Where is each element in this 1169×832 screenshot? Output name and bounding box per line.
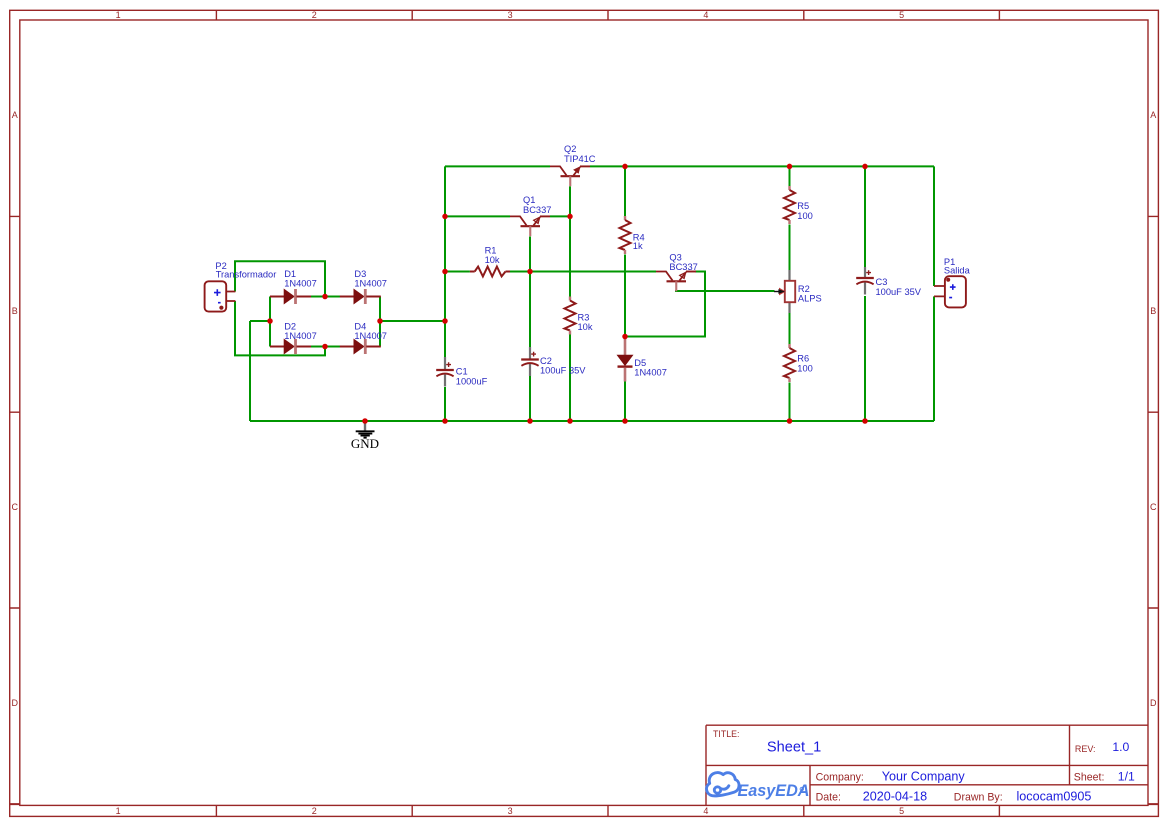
svg-text:lococam0905: lococam0905 (1017, 789, 1092, 803)
wire x=530 Q1 base down to C2 (529, 237, 531, 348)
svg-text:5: 5 (899, 10, 904, 20)
junction (567, 214, 573, 220)
svg-text:1N4007: 1N4007 (354, 331, 387, 341)
diode D3 1N4007 (340, 289, 381, 304)
title block frame (706, 725, 1148, 805)
connector P2 (Transformador) (205, 281, 236, 311)
wire Q1 base rail left segment (445, 215, 510, 217)
capacitor C1 1000uF (436, 357, 454, 387)
junction (442, 318, 448, 324)
wire P2 pin2 to bridge AC node 2 (235, 301, 325, 355)
wire bridge right column (379, 297, 381, 347)
wire R6 to ground rail (789, 383, 791, 422)
svg-text:3: 3 (508, 10, 513, 20)
svg-text:TITLE:: TITLE: (713, 729, 739, 739)
svg-text:REV:: REV: (1075, 744, 1096, 754)
wire bridge left column (269, 297, 271, 347)
wire D2 cathode to node (311, 346, 325, 348)
svg-text:100: 100 (797, 211, 813, 221)
connector P1 (Salida) (934, 276, 966, 307)
resistor R6 100 (784, 344, 795, 382)
svg-text:Date:: Date: (816, 791, 841, 803)
junction (622, 164, 628, 170)
svg-text:2: 2 (312, 10, 317, 20)
svg-text:1N4007: 1N4007 (354, 278, 387, 288)
junction (362, 418, 368, 424)
svg-text:R2: R2 (798, 284, 810, 294)
svg-text:Sheet:: Sheet: (1074, 772, 1105, 784)
svg-text:Salida: Salida (944, 266, 971, 276)
svg-text:1000uF: 1000uF (456, 377, 488, 387)
wire x=530 C2 to ground rail (529, 376, 531, 422)
svg-text:A: A (12, 110, 18, 120)
junction (527, 269, 533, 275)
wire right rail lower (P1 pin 2 to bottom rail) (933, 296, 935, 421)
diode D4 1N4007 (340, 339, 381, 354)
svg-text:C2: C2 (540, 356, 552, 366)
svg-text:B: B (12, 306, 18, 316)
wire x=570 Q2 base down to R3 (569, 186, 571, 296)
svg-text:4: 4 (703, 10, 708, 20)
title block values (767, 739, 1135, 803)
svg-text:C3: C3 (876, 277, 888, 287)
svg-text:4: 4 (703, 806, 708, 816)
junction (442, 269, 448, 275)
svg-text:1: 1 (116, 806, 121, 816)
junction (787, 418, 793, 424)
wire node to D4 anode (325, 346, 340, 348)
svg-text:10k: 10k (485, 255, 500, 265)
wire x=625 rail to R4 (624, 166, 626, 216)
junction (322, 294, 328, 300)
frame corner steps (10, 803, 1159, 805)
junction (622, 334, 628, 340)
junction (442, 418, 448, 424)
svg-text:R3: R3 (578, 313, 590, 323)
EasyEDA logo (707, 773, 810, 800)
wire Q1 emitter to node (550, 215, 570, 217)
svg-text:BC337: BC337 (523, 205, 551, 215)
wire R1 right to node (510, 271, 530, 273)
junction (622, 418, 628, 424)
svg-text:A: A (1150, 110, 1156, 120)
svg-text:EasyEDA: EasyEDA (738, 782, 810, 800)
svg-text:1/1: 1/1 (1118, 770, 1135, 784)
wire C3 to ground rail (864, 296, 866, 421)
junction (322, 344, 328, 350)
wire rail to R5 (789, 166, 791, 186)
svg-text:TIP41C: TIP41C (564, 154, 596, 164)
wire R5 to R2 (789, 225, 791, 271)
potentiometer R2 ALPS (774, 270, 795, 313)
capacitor C2 100uF 35V (521, 347, 539, 376)
wire R1 left (445, 271, 470, 273)
svg-text:C: C (1150, 502, 1157, 512)
svg-text:R6: R6 (797, 353, 809, 363)
svg-text:5: 5 (899, 806, 904, 816)
svg-text:GND: GND (351, 436, 379, 451)
wire top rail right segment (Q2 emitter to output) (590, 165, 934, 167)
svg-text:1.0: 1.0 (1112, 740, 1129, 754)
svg-text:2: 2 (312, 806, 317, 816)
resistor R3 10k (565, 297, 576, 335)
junction (377, 318, 383, 324)
diode D1 1N4007 (270, 289, 311, 304)
svg-text:ALPS: ALPS (798, 294, 822, 304)
wire left down to ground rail (249, 321, 251, 421)
svg-text:D: D (12, 698, 19, 708)
wire x=625 R4 to D5 node (624, 255, 626, 337)
resistor R5 100 (784, 186, 795, 224)
svg-text:Transformador: Transformador (216, 270, 277, 280)
wire node to Q3 base row (530, 271, 656, 273)
transistor Q3 BC337 (656, 272, 696, 292)
svg-text:R5: R5 (797, 201, 809, 211)
wire x=570 R3 to ground rail (569, 335, 571, 422)
svg-text:Q1: Q1 (523, 195, 535, 205)
resistor R4 1k (620, 216, 631, 254)
svg-text:100uF 35V: 100uF 35V (876, 287, 922, 297)
wire bottom ground rail (250, 420, 934, 422)
wire R2 to R6 (789, 313, 791, 344)
svg-text:Q2: Q2 (564, 144, 576, 154)
svg-text:B: B (1150, 306, 1156, 316)
svg-text:1N4007: 1N4007 (284, 278, 317, 288)
svg-text:100uF 35V: 100uF 35V (540, 366, 586, 376)
svg-text:Sheet_1: Sheet_1 (767, 739, 821, 755)
diode D2 1N4007 (270, 339, 311, 354)
svg-text:Your Company: Your Company (882, 770, 966, 784)
wire top rail left segment (C1+ to Q2 collector) (445, 165, 550, 167)
svg-text:BC337: BC337 (669, 262, 697, 272)
svg-text:10k: 10k (578, 322, 593, 332)
diode D5 1N4007 (618, 339, 633, 382)
svg-text:C: C (12, 502, 19, 512)
junction (527, 418, 533, 424)
wire left rail x=445 lower (C1 to ground rail) (444, 387, 446, 421)
svg-text:100: 100 (797, 363, 813, 373)
title block labels (713, 729, 1104, 803)
svg-text:Q3: Q3 (669, 253, 681, 263)
junction (787, 164, 793, 170)
wire bridge positive output to C1 rail (380, 320, 445, 322)
wire bridge negative output (250, 320, 270, 322)
wire Q3 emitter loop to D5 anode (625, 272, 705, 337)
wire right rail upper (to P1 pin 1) (933, 166, 935, 286)
svg-text:Company:: Company: (816, 772, 864, 784)
svg-text:1k: 1k (633, 241, 643, 251)
transistor Q1 BC337 (510, 216, 550, 236)
svg-text:C1: C1 (456, 367, 468, 377)
junction (442, 214, 448, 220)
junction (267, 318, 273, 324)
svg-text:1: 1 (116, 10, 121, 20)
svg-text:R1: R1 (485, 245, 497, 255)
wire D1 cathode to node (311, 296, 325, 298)
ground GND (351, 423, 379, 451)
capacitor C3 100uF 35V (856, 267, 874, 295)
junction (567, 418, 573, 424)
junction (862, 418, 868, 424)
svg-text:D: D (1150, 698, 1157, 708)
svg-text:Drawn By:: Drawn By: (954, 791, 1003, 803)
junction (862, 164, 868, 170)
resistor R1 10k (470, 267, 510, 277)
svg-text:3: 3 (508, 806, 513, 816)
wire x=625 D5 to ground rail (624, 382, 626, 422)
wire P2 pin1 to bridge AC node 1 (235, 261, 325, 296)
wire node to D3 anode (325, 296, 340, 298)
wire Q3 base to R2 wiper (675, 290, 775, 292)
svg-text:1N4007: 1N4007 (634, 367, 667, 377)
wire left rail x=445 upper (to C1) (444, 166, 446, 357)
svg-text:2020-04-18: 2020-04-18 (863, 789, 927, 803)
wire rail to C3 (864, 166, 866, 267)
svg-text:1N4007: 1N4007 (284, 331, 317, 341)
transistor Q2 TIP41C (550, 166, 590, 186)
